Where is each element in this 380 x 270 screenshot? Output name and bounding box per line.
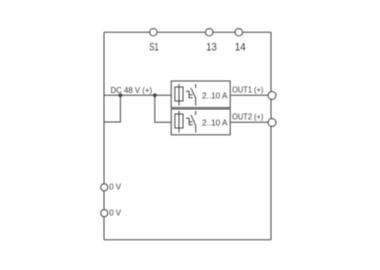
terminal S1	[150, 29, 157, 36]
svg-text:13: 13	[206, 42, 217, 54]
wire: branch from junction to breaker F2 input	[155, 95, 171, 122]
terminal OUT1	[268, 92, 276, 100]
breaker F1 outline box	[171, 81, 230, 108]
wire: bottom rail	[104, 239, 271, 241]
wire: OUT2 from breaker F2 to right rail	[230, 121, 271, 123]
svg-text:S1: S1	[149, 42, 159, 54]
junction: supply bus to breaker F2 feed	[153, 93, 157, 97]
thermal release F1	[186, 91, 193, 97]
terminal 13	[206, 29, 213, 36]
svg-text:DC 48 V (+): DC 48 V (+)	[111, 85, 153, 95]
svg-text:2..10 A: 2..10 A	[202, 118, 228, 127]
svg-text:0 V: 0 V	[109, 182, 121, 192]
wire: top rail to terminals S1 13 14	[104, 31, 271, 33]
junction: supply bus to left rail loop	[119, 93, 123, 97]
terminal OUT2	[268, 119, 276, 127]
svg-text:14: 14	[235, 42, 246, 54]
wire: right rail	[270, 32, 272, 240]
contact F2 (fixed contact tick)	[195, 111, 197, 115]
circuit breaker F1	[171, 81, 230, 108]
svg-text:0 V: 0 V	[109, 208, 121, 218]
wire: left rail	[103, 32, 105, 240]
wire: DC 48 V (+) supply bus	[104, 94, 171, 96]
contact F1 (moving contact)	[191, 88, 196, 106]
terminal 14	[235, 29, 242, 36]
terminal 0 V (lower)	[101, 210, 108, 217]
contact F2 (moving contact)	[191, 115, 196, 133]
svg-text:2..10 A: 2..10 A	[202, 91, 228, 100]
circuit breaker F2	[171, 109, 230, 135]
terminal 0 V (upper)	[101, 184, 108, 191]
wire: OUT1 from breaker F1 to right rail	[230, 94, 271, 96]
breaker F2 outline box	[171, 109, 230, 135]
contact F1 (fixed contact tick)	[195, 84, 197, 88]
fuse element F1	[175, 87, 183, 101]
fuse element F2	[175, 114, 183, 128]
svg-text:OUT1 (+): OUT1 (+)	[232, 84, 263, 94]
thermal release F2	[186, 118, 193, 124]
wire: loop from junction down to left rail	[105, 95, 121, 122]
svg-text:OUT2 (+): OUT2 (+)	[232, 111, 263, 121]
